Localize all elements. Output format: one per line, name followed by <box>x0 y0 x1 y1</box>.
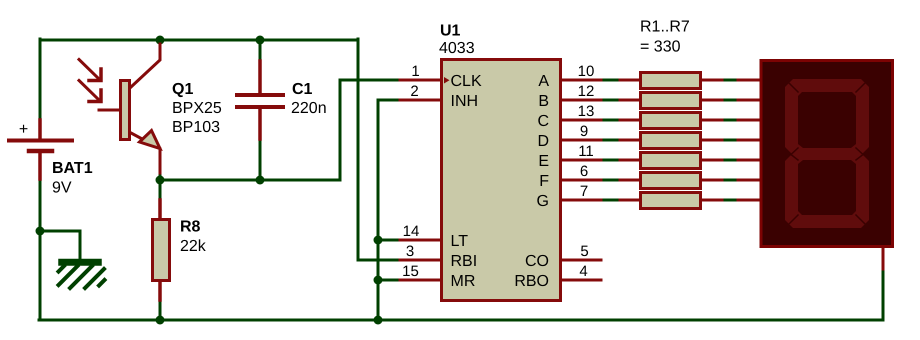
wire bottom rail <box>39 319 883 322</box>
pin 3 RBI <box>400 259 441 262</box>
svg-text:CO: CO <box>525 253 549 270</box>
svg-text:10: 10 <box>578 63 595 80</box>
resistor R8 <box>153 200 170 300</box>
svg-text:2: 2 <box>410 83 418 100</box>
wire R3 to display <box>722 119 738 122</box>
svg-text:+: + <box>19 121 28 138</box>
display lead F <box>738 179 760 182</box>
wire emitter to R8 <box>159 172 162 201</box>
svg-text:= 330: = 330 <box>640 39 681 56</box>
svg-text:4: 4 <box>579 263 587 280</box>
junction top rail Q1 collector <box>156 36 165 45</box>
wire R7 to display <box>722 199 738 202</box>
svg-text:RBO: RBO <box>514 273 549 290</box>
wire R2 to display <box>722 99 738 102</box>
svg-text:7: 7 <box>580 183 588 200</box>
pin 7 G <box>561 199 601 202</box>
wire C1 bottom <box>259 138 262 180</box>
wire segment A net <box>601 79 620 82</box>
junction MR <box>374 276 383 285</box>
Q1 light arrow 2 <box>79 81 98 100</box>
pin 10 A <box>561 79 601 82</box>
pin 6 F <box>561 179 601 182</box>
wire segment C net <box>601 119 620 122</box>
junction ground rail <box>374 316 383 325</box>
segment inner bottom window <box>798 160 856 215</box>
svg-text:B: B <box>538 93 549 110</box>
wire segment E net <box>601 159 620 162</box>
segment outline blob <box>785 79 869 228</box>
display common pin <box>882 248 885 269</box>
svg-text:9V: 9V <box>52 180 72 197</box>
wire INH LT MR to ground rail <box>378 100 400 320</box>
svg-text:1: 1 <box>411 63 419 80</box>
wire left rail lower <box>39 178 42 320</box>
svg-text:INH: INH <box>451 93 479 110</box>
junction C1 bottom <box>256 176 265 185</box>
svg-text:BP103: BP103 <box>172 119 220 136</box>
display leads <box>738 80 883 269</box>
Q1 emitter pin <box>131 133 160 173</box>
svg-text:5: 5 <box>580 243 588 260</box>
pin 12 B <box>561 99 601 102</box>
svg-text:Q1: Q1 <box>172 81 193 98</box>
Q1 emitter arrowhead <box>140 131 161 149</box>
wire segment F net <box>601 179 620 182</box>
svg-text:CLK: CLK <box>451 73 482 90</box>
svg-text:220n: 220n <box>291 100 327 117</box>
svg-text:D: D <box>537 133 549 150</box>
svg-text:BAT1: BAT1 <box>52 160 93 177</box>
wire segment B net <box>601 99 620 102</box>
op IC U1 4033 body <box>442 60 561 301</box>
Q1 base bar <box>121 81 130 140</box>
wire R8 to bottom rail <box>159 299 162 320</box>
wire R4 to display <box>722 139 738 142</box>
resistor R3 <box>620 113 722 129</box>
svg-text:RBI: RBI <box>451 253 478 270</box>
Q1 light arrow 1 <box>79 60 98 79</box>
svg-text:U1: U1 <box>440 23 461 40</box>
pin 14 LT <box>400 239 441 242</box>
svg-text:13: 13 <box>578 103 595 120</box>
pin 13 C <box>561 119 601 122</box>
U1 left pins <box>400 80 441 280</box>
wire segment G net <box>601 199 620 202</box>
display lead A <box>738 79 760 82</box>
junction ground branch <box>36 227 45 236</box>
Q1 base pin <box>99 109 119 112</box>
wire R1 to display <box>722 79 738 82</box>
svg-text:G: G <box>537 193 549 210</box>
resistor R5 <box>620 153 722 169</box>
battery BAT1 <box>9 120 72 179</box>
display lead C <box>738 119 760 122</box>
pin 9 D <box>561 139 601 142</box>
pin 2 INH <box>400 99 441 102</box>
junction LT <box>374 236 383 245</box>
capacitor C1 <box>237 61 283 139</box>
svg-text:C1: C1 <box>292 81 313 98</box>
wire ground branch <box>40 231 80 258</box>
segment inner top window <box>798 92 856 148</box>
svg-text:BPX25: BPX25 <box>172 100 222 117</box>
resistor R1 <box>620 73 722 89</box>
U1 right pins <box>561 80 601 280</box>
pin 5 CO <box>561 259 601 262</box>
svg-text:E: E <box>538 153 549 170</box>
svg-text:R1..R7: R1..R7 <box>640 19 690 36</box>
display lead D <box>738 139 760 142</box>
pin 4 RBO <box>561 279 601 282</box>
display lead G <box>738 199 760 202</box>
resistor R7 <box>620 193 722 209</box>
ground <box>59 261 105 289</box>
resistor R4 <box>620 133 722 149</box>
svg-text:C: C <box>537 113 549 130</box>
junction R8 bottom rail <box>156 316 165 325</box>
wire emitter node to CLK <box>160 80 400 180</box>
wire C1 top <box>259 40 262 62</box>
transistor Q1 <box>79 44 160 173</box>
pin 1 CLK <box>400 79 441 82</box>
svg-text:4033: 4033 <box>439 40 475 57</box>
svg-text:15: 15 <box>402 263 419 280</box>
wire top rail <box>40 39 358 42</box>
wire segment D net <box>601 139 620 142</box>
resistor R6 <box>620 173 722 189</box>
svg-text:F: F <box>539 173 549 190</box>
seven segment digit 8 <box>785 79 869 228</box>
svg-text:R8: R8 <box>180 219 201 236</box>
svg-text:MR: MR <box>451 273 476 290</box>
svg-text:6: 6 <box>580 163 588 180</box>
wire vertical from top rail to RBI <box>358 39 400 260</box>
resistor R2 <box>620 93 722 109</box>
pin 11 E <box>561 159 601 162</box>
svg-text:11: 11 <box>578 143 594 160</box>
pin 15 MR <box>400 279 441 282</box>
svg-text:3: 3 <box>406 243 414 260</box>
svg-text:12: 12 <box>578 83 595 100</box>
wire R5 to display <box>722 159 738 162</box>
segment seams <box>790 84 865 224</box>
wire R6 to display <box>722 179 738 182</box>
Q1 collector pin <box>131 44 160 87</box>
svg-text:22k: 22k <box>180 238 207 255</box>
display lead E <box>738 159 760 162</box>
U1 clock symbol <box>444 77 450 84</box>
wire display bottom pin to rail <box>882 268 885 320</box>
svg-text:9: 9 <box>580 123 588 140</box>
svg-text:14: 14 <box>403 223 420 240</box>
junction emitter node <box>156 176 165 185</box>
wire LT stub <box>378 239 400 242</box>
svg-text:A: A <box>538 73 549 90</box>
wire MR stub <box>378 279 400 282</box>
wire left rail upper <box>39 39 42 121</box>
junction top rail C1 <box>256 36 265 45</box>
display lead B <box>738 99 760 102</box>
svg-text:LT: LT <box>451 233 469 250</box>
seven segment display body <box>761 61 893 247</box>
